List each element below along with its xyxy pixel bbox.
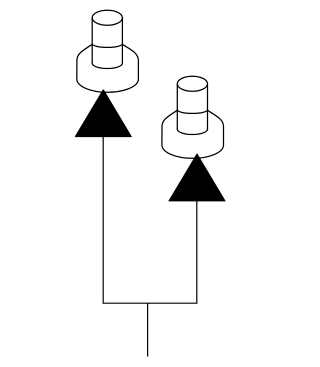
terminal stud right: cylinder bottom arc — [177, 129, 207, 134]
terminal stud left: cylinder bottom arc — [92, 63, 122, 68]
terminal stud left: cylinder left side — [91, 18, 93, 63]
wire from left arrow down — [102, 137, 104, 304]
terminal stud right: base flange outline — [162, 110, 224, 158]
stem wire from junction down — [147, 303, 149, 356]
terminal stud left: cylinder right side — [121, 18, 123, 63]
terminal stud right: mid arc where cylinder meets flange — [177, 110, 207, 114]
terminal stud right: cylinder right side — [207, 84, 209, 129]
arrow to left terminal (filled triangle) — [75, 90, 131, 137]
terminal stud left: base flange outline — [77, 44, 139, 92]
terminal stud left: top ellipse — [92, 10, 122, 25]
terminal stud left: mid arc where cylinder meets flange — [92, 44, 122, 48]
horizontal joining wire — [103, 302, 198, 304]
arrow to right terminal (filled triangle) — [169, 154, 225, 201]
wire from right arrow down — [196, 201, 198, 303]
terminal stud right: top ellipse — [177, 76, 207, 91]
terminal stud right: cylinder left side — [176, 84, 178, 129]
